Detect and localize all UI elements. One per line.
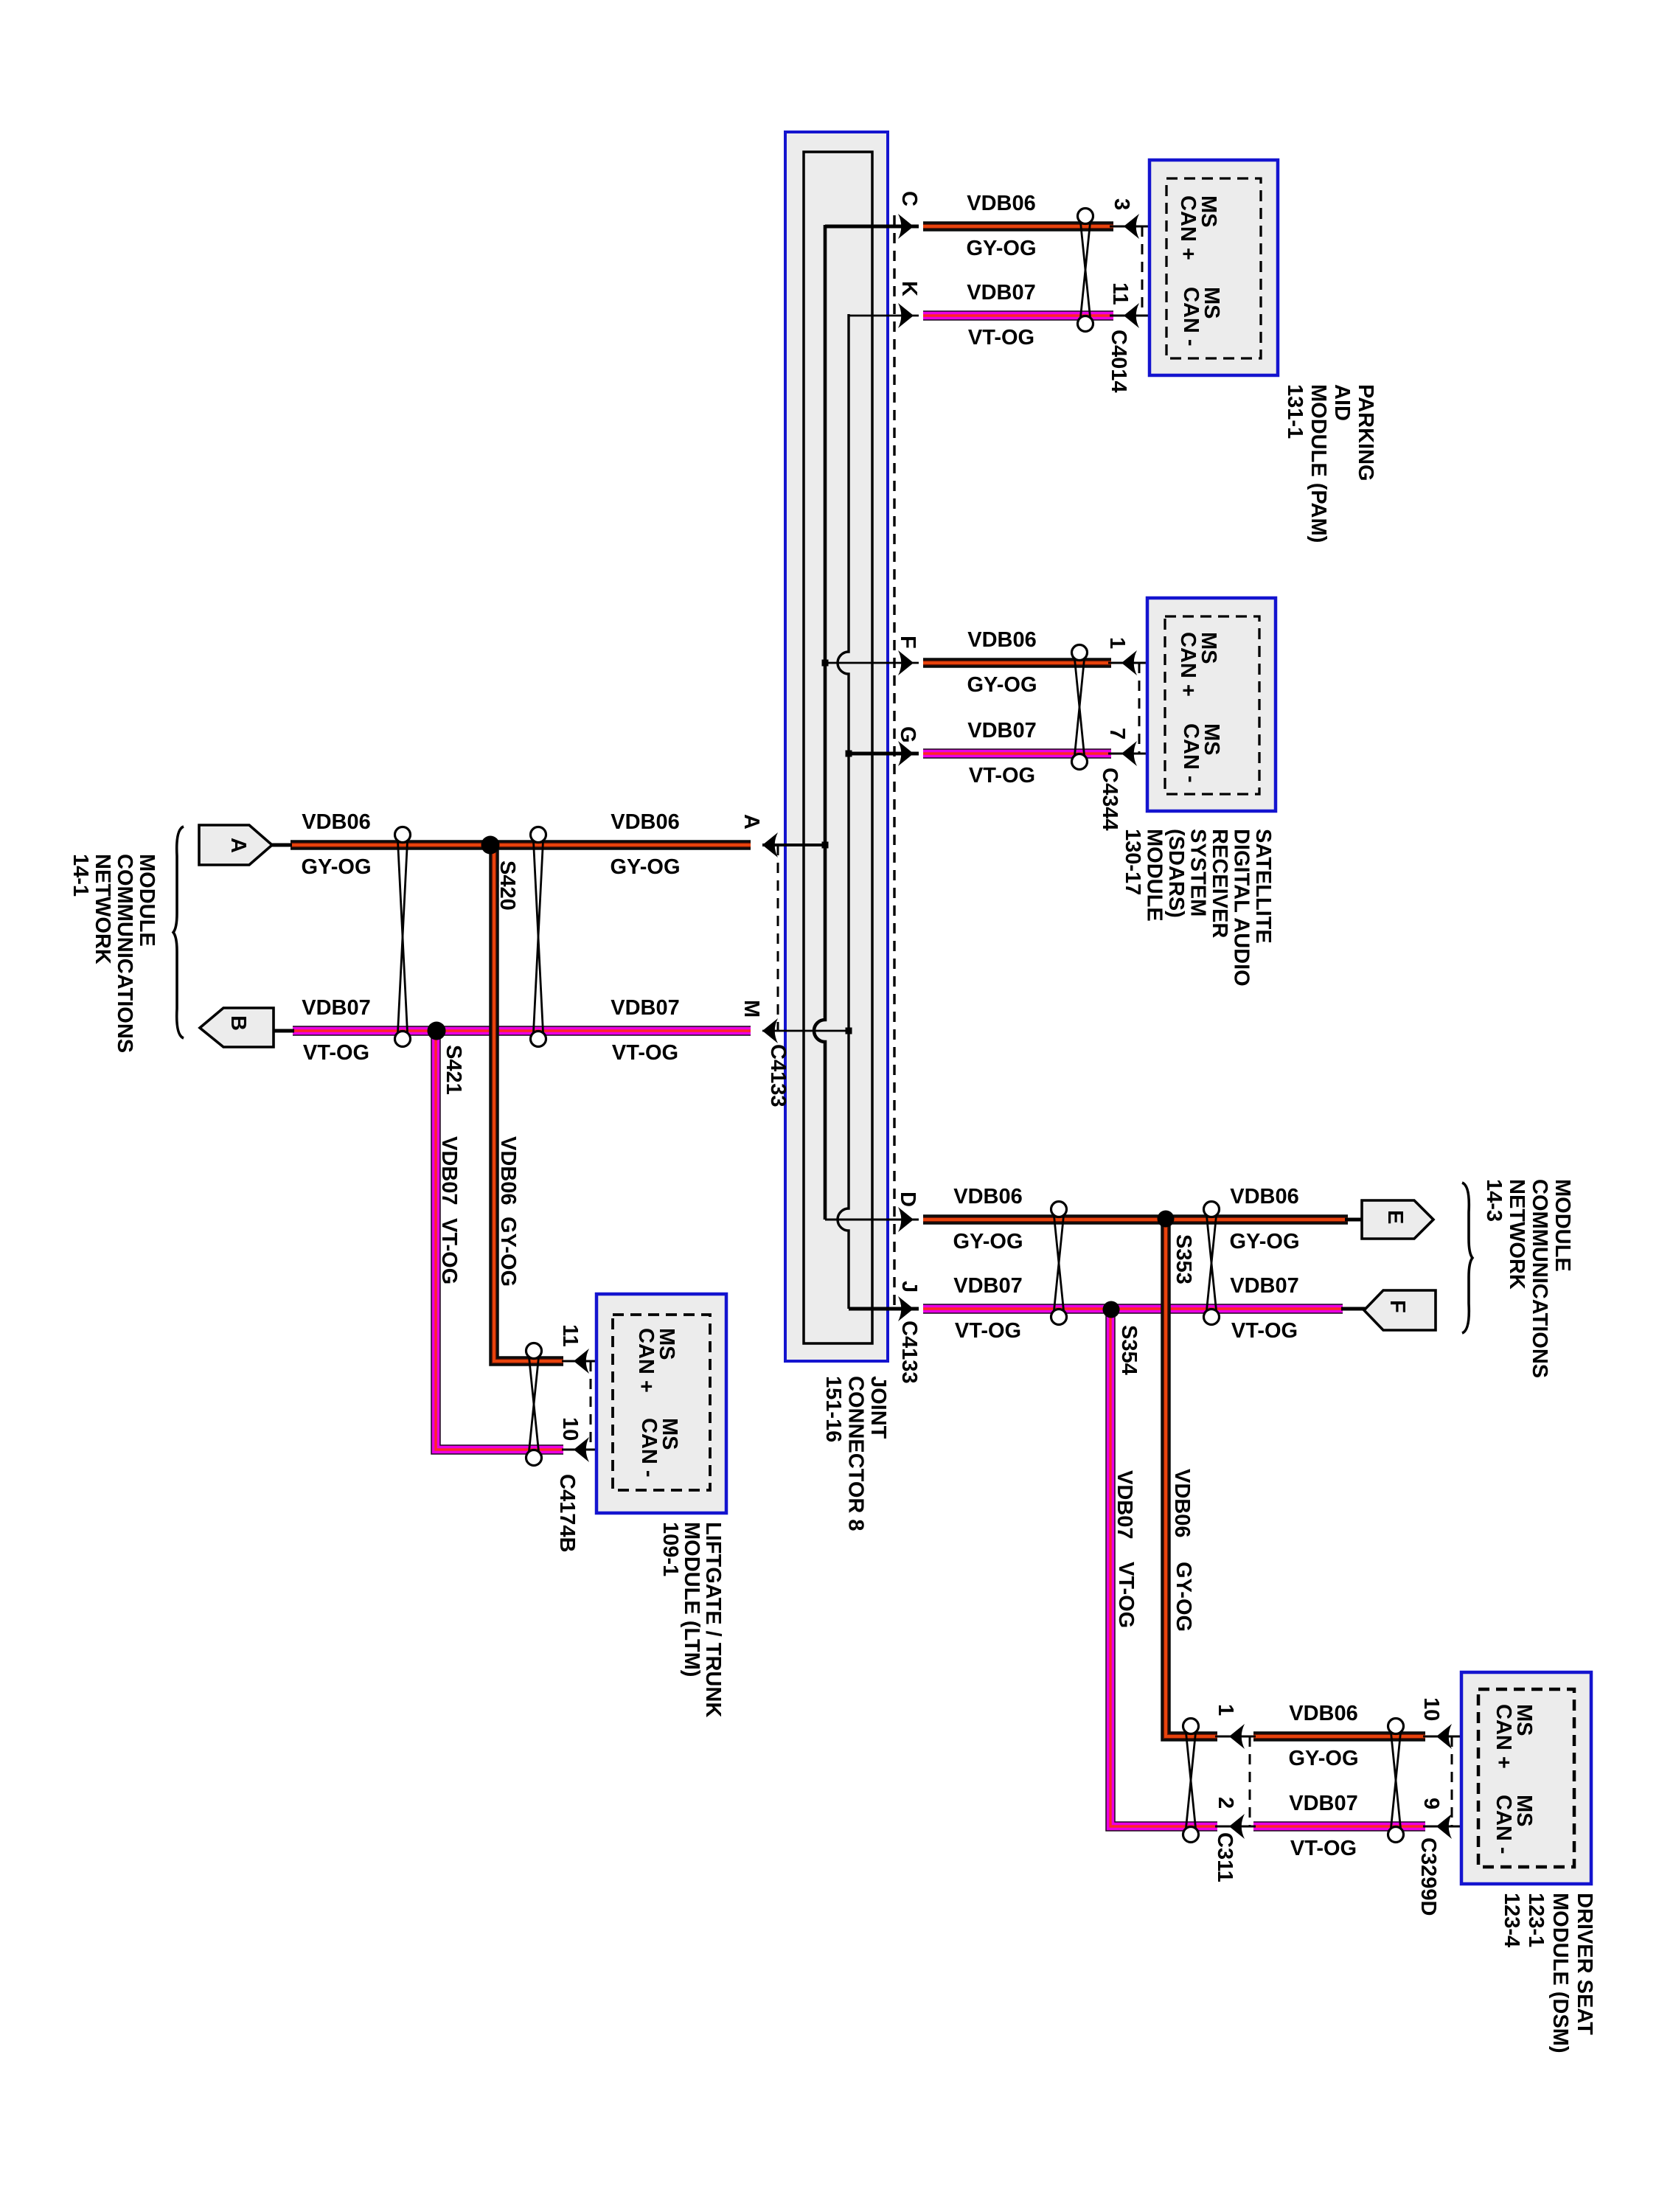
svg-text:GY-OG: GY-OG: [496, 1217, 520, 1287]
svg-text:VDB06: VDB06: [611, 810, 680, 834]
junction G on VDB07 trunk: [846, 751, 852, 757]
svg-text:F: F: [1385, 1300, 1409, 1313]
twisted pair symbol A/B left: [395, 827, 411, 1047]
SDARS pin 1 arrow: [1121, 650, 1137, 675]
svg-text:VDB07: VDB07: [967, 719, 1037, 742]
DSM MS CAN+ text: [1492, 1704, 1536, 1769]
network flag F: [1364, 1290, 1436, 1330]
wire VDB07 VT-OG joint connector K to PAM pin 11: [923, 310, 1113, 321]
SDARS MS CAN+ text: [1176, 632, 1220, 697]
svg-text:K: K: [897, 281, 921, 296]
wire VDB07 vertical from S354 to DSM via C311 pin 2: [1110, 1310, 1217, 1826]
svg-text:C4174B: C4174B: [555, 1474, 579, 1552]
connector C3299D dashed line: [1451, 1736, 1453, 1826]
wire labels VDB06 GY-OG (D row right): [1230, 1185, 1299, 1208]
splice label S354: [1117, 1325, 1141, 1375]
LTM MS CAN- text: [637, 1418, 681, 1478]
joint connector 8 box 151-16: [785, 132, 888, 1361]
wire labels VDB06 GY-OG (F row): [967, 628, 1037, 652]
PAM pin 11 arrow: [1124, 303, 1139, 328]
pin label M: [740, 1000, 763, 1018]
svg-text:C4344: C4344: [1098, 768, 1121, 830]
svg-text:VT-OG: VT-OG: [955, 1319, 1021, 1343]
C311 pin 1 arrow: [1229, 1724, 1245, 1749]
svg-text:GY-OG: GY-OG: [953, 1230, 1023, 1253]
svg-text:VT-OG: VT-OG: [968, 326, 1034, 349]
connector C4014 dashed line: [1141, 226, 1144, 316]
PAM MS CAN- text: [1179, 287, 1223, 347]
flag F lead: [1341, 1307, 1366, 1311]
wire labels VDB07 VT-OG (G row): [967, 719, 1037, 742]
svg-text:VDB07: VDB07: [967, 281, 1036, 305]
connector label C4174B: [555, 1474, 579, 1552]
LTM pin 11 arrow: [574, 1349, 589, 1374]
wire labels VDB06 GY-OG (A row left): [302, 810, 371, 834]
svg-text:GY-OG: GY-OG: [1288, 1747, 1358, 1770]
wire VDB06 GY-OG joint connector F to SDARS pin 1: [923, 658, 1111, 668]
wire labels VDB06 GY-OG (DSM row): [1289, 1702, 1358, 1725]
twisted pair symbol A/B right: [531, 827, 546, 1047]
connector label C311: [1213, 1832, 1237, 1882]
pin label J: [897, 1281, 921, 1293]
wire labels VDB07 VT-OG (J row right): [1230, 1274, 1299, 1298]
splice label S353: [1172, 1234, 1195, 1284]
junction A on VDB06 trunk: [822, 842, 829, 849]
network flag E: [1362, 1200, 1433, 1239]
pin label 11 (PAM): [1108, 282, 1132, 305]
PAM module label: [1283, 384, 1377, 543]
wire VDB07 VT-OG joint connector J to splice S354 to flag F: [923, 1304, 1343, 1314]
DSM MS CAN- text: [1492, 1795, 1536, 1854]
wire labels VDB07 VT-OG (DSM row): [1289, 1792, 1358, 1815]
satellite digital audio receiver (SDARS) module box: [1147, 598, 1276, 811]
pin label 1 (SDARS): [1105, 637, 1129, 649]
pin label A: [740, 814, 763, 829]
twisted pair symbol C311 leads: [1183, 1719, 1199, 1843]
wire VDB07 VT-OG C311 pin 2 to DSM pin 9: [1253, 1821, 1425, 1832]
svg-text:10: 10: [1419, 1697, 1443, 1721]
svg-text:M: M: [740, 1000, 763, 1018]
wire VDB06 vertical from S420 to LTM pin 11: [494, 845, 563, 1361]
twisted pair symbol F/G: [1072, 645, 1088, 770]
pin label 9 (DSM): [1419, 1798, 1443, 1809]
svg-text:VDB07: VDB07: [1230, 1274, 1299, 1298]
svg-text:VT-OG: VT-OG: [303, 1041, 369, 1065]
svg-text:S420: S420: [495, 860, 519, 911]
LTM pin 10 arrow: [574, 1437, 589, 1462]
brace module communications network 14-1: [173, 827, 184, 1038]
svg-text:VDB06: VDB06: [1289, 1702, 1358, 1725]
joint connector pin G arrow: [898, 741, 914, 766]
joint connector label: [821, 1376, 890, 1531]
DSM pin 10 lead: [1423, 1736, 1478, 1738]
vertical wire label VT-OG (S421 run): [437, 1218, 461, 1284]
svg-text:E: E: [1383, 1210, 1407, 1224]
wire labels VDB07 VT-OG (B row right): [611, 996, 680, 1020]
wire VDB06 vertical from S353 to DSM via C311 pin 1: [1166, 1220, 1217, 1736]
joint connector pin K arrow: [898, 303, 914, 328]
pin label K: [897, 281, 921, 296]
svg-text:VDB07: VDB07: [302, 996, 371, 1020]
vertical wire label VDB07 (S421 run): [437, 1136, 461, 1206]
network flag A: [199, 825, 272, 865]
svg-text:VDB06: VDB06: [1230, 1185, 1299, 1208]
LTM pin 11 lead: [562, 1360, 613, 1363]
DSM module label: [1500, 1893, 1596, 2053]
splice S354: [1103, 1301, 1120, 1318]
svg-text:11: 11: [558, 1324, 582, 1347]
twisted pair symbol D/J right: [1204, 1202, 1220, 1325]
svg-text:GY-OG: GY-OG: [610, 855, 680, 879]
pin label 10 (LTM): [558, 1417, 582, 1441]
svg-text:C: C: [897, 191, 921, 206]
svg-text:VT-OG: VT-OG: [969, 764, 1035, 787]
joint connector right-side connector dashed line: [893, 215, 895, 1309]
pin label F: [896, 636, 919, 649]
wire VDB07 VT-OG joint connector G to SDARS pin 7: [923, 748, 1111, 759]
svg-text:VT-OG: VT-OG: [1290, 1837, 1357, 1860]
twisted pair symbol DSM leads: [1388, 1719, 1404, 1843]
svg-text:VT-OG: VT-OG: [1114, 1562, 1138, 1628]
svg-text:10: 10: [558, 1417, 582, 1441]
svg-text:VDB06: VDB06: [953, 1185, 1023, 1208]
wire labels VDB07 VT-OG (J row left): [953, 1274, 1023, 1298]
svg-text:GY-OG: GY-OG: [967, 673, 1037, 697]
wire labels VDB06 GY-OG (A row right): [611, 810, 680, 834]
PAM pin 3 arrow: [1124, 214, 1139, 239]
junction M on VDB07 trunk: [846, 1028, 852, 1034]
vertical wire label GY-OG (S420 run): [496, 1217, 520, 1287]
pin label D: [896, 1192, 919, 1207]
label module communications network 14-3: [1482, 1179, 1574, 1378]
flag A lead: [270, 844, 292, 847]
vertical wire label VDB07 (S354 run): [1113, 1470, 1136, 1540]
svg-text:VDB07: VDB07: [1113, 1470, 1136, 1540]
DSM pin 9 arrow: [1436, 1814, 1452, 1839]
joint connector pin M internal line: [762, 1030, 849, 1032]
vertical wire label GY-OG (S353 run): [1172, 1562, 1195, 1632]
svg-text:VDB07: VDB07: [437, 1136, 461, 1206]
C311 pin 2 arrow: [1229, 1814, 1245, 1839]
PAM pin 3 lead: [1110, 226, 1167, 228]
vertical wire label VDB06 (S420 run): [496, 1136, 520, 1206]
svg-text:VT-OG: VT-OG: [612, 1041, 678, 1065]
svg-text:F: F: [896, 636, 919, 649]
joint connector pin A internal line: [762, 844, 825, 846]
joint connector pin F arrow: [898, 650, 914, 675]
network flag B: [200, 1008, 274, 1047]
SDARS MS CAN- text: [1179, 723, 1223, 783]
splice label S421: [442, 1045, 465, 1095]
joint connector pin C arrow: [898, 214, 914, 239]
svg-text:1: 1: [1214, 1704, 1237, 1716]
liftgate/trunk module (LTM) box: [597, 1294, 726, 1513]
svg-text:C311: C311: [1213, 1832, 1237, 1882]
joint connector internal bus VDB06: pin C trunk to pin D: [814, 225, 919, 1220]
LTM module label: [658, 1522, 725, 1717]
wire labels VDB06 GY-OG (D row left): [953, 1185, 1023, 1208]
svg-text:C4133: C4133: [766, 1044, 790, 1107]
svg-text:VDB07: VDB07: [611, 996, 680, 1020]
SDARS pin 1 lead: [1108, 662, 1166, 664]
svg-text:GY-OG: GY-OG: [1229, 1230, 1299, 1253]
pin label 2 (C311): [1214, 1797, 1237, 1809]
joint connector internal bus VDB07: pin K trunk to pin J: [838, 314, 919, 1309]
joint connector pin D arrow: [898, 1207, 914, 1232]
pin label 3: [1110, 198, 1133, 210]
pin label 7: [1105, 728, 1129, 740]
svg-text:VDB07: VDB07: [1289, 1792, 1358, 1815]
svg-text:VT-OG: VT-OG: [437, 1218, 461, 1284]
SDARS module label: [1121, 829, 1275, 987]
pin label 11 (LTM): [558, 1324, 582, 1347]
svg-text:VDB06: VDB06: [496, 1136, 520, 1206]
svg-text:S421: S421: [442, 1045, 465, 1095]
splice S420: [481, 836, 500, 855]
splice S353: [1158, 1211, 1175, 1228]
label module communications network 14-1: [69, 854, 159, 1053]
pin label G: [896, 726, 919, 743]
svg-text:S353: S353: [1172, 1234, 1195, 1284]
svg-text:VT-OG: VT-OG: [1231, 1319, 1298, 1343]
LTM MS CAN+ text: [634, 1328, 678, 1393]
C311 pin 2 gap lead: [1215, 1826, 1256, 1828]
twisted pair symbol LTM leads: [526, 1343, 542, 1466]
connector C4344 dashed line: [1138, 663, 1141, 754]
svg-text:VDB06: VDB06: [302, 810, 371, 834]
parking aid module (PAM) box: [1150, 160, 1278, 375]
twisted pair symbol D/J left: [1051, 1202, 1067, 1325]
flag B lead: [272, 1029, 294, 1033]
joint connector pin G internal line: [849, 752, 919, 756]
svg-text:A: A: [226, 838, 250, 853]
flag E lead: [1345, 1218, 1363, 1222]
svg-text:B: B: [226, 1015, 250, 1031]
svg-text:9: 9: [1419, 1798, 1443, 1809]
svg-text:11: 11: [1108, 282, 1132, 305]
svg-text:VDB07: VDB07: [953, 1274, 1023, 1298]
connector label C4133 (bottom): [897, 1321, 921, 1383]
pin label 1 (C311): [1214, 1704, 1237, 1716]
svg-text:VDB06: VDB06: [967, 192, 1036, 215]
wire labels VDB06 GY-OG (C row): [967, 192, 1036, 215]
joint connector pin M arrow: [762, 1018, 778, 1043]
wire VDB06 GY-OG joint connector C to PAM pin 3: [923, 221, 1113, 232]
brace module communications network 14-3: [1462, 1183, 1472, 1333]
connector label C4133 (left): [766, 1044, 790, 1107]
wire VDB06 GY-OG network A to joint connector pin A through splice S420: [291, 840, 751, 850]
C311 pin 1 gap lead: [1215, 1736, 1256, 1738]
joint connector pin J arrow: [898, 1296, 914, 1321]
wire labels VDB07 VT-OG (B row left): [302, 996, 371, 1020]
wire VDB06 GY-OG joint connector D to splice S353 to flag E: [923, 1214, 1348, 1225]
wire VDB07 vertical from S421 to LTM pin 10: [436, 1031, 563, 1450]
svg-text:VDB06: VDB06: [1170, 1469, 1194, 1538]
junction F on VDB06 trunk: [822, 660, 829, 667]
PAM pin 11 lead: [1110, 315, 1167, 317]
svg-text:VDB06: VDB06: [967, 628, 1037, 652]
svg-text:1: 1: [1105, 637, 1129, 649]
LTM connector dashed line: [590, 1361, 592, 1450]
svg-text:D: D: [896, 1192, 919, 1207]
svg-text:GY-OG: GY-OG: [966, 237, 1036, 260]
svg-text:C4014: C4014: [1107, 330, 1130, 392]
svg-text:C3299D: C3299D: [1416, 1837, 1440, 1916]
splice label S420: [495, 860, 519, 911]
connector C311 dashed line: [1249, 1736, 1251, 1826]
svg-text:GY-OG: GY-OG: [1172, 1562, 1195, 1632]
driver seat module (DSM) box: [1461, 1672, 1591, 1884]
svg-text:C4133: C4133: [897, 1321, 921, 1383]
connector C4133 left dashed line: [777, 845, 779, 1031]
pin label 10 (DSM): [1419, 1697, 1443, 1721]
connector label C4344: [1098, 768, 1121, 830]
wire VDB06 GY-OG C311 pin 1 to DSM pin 10: [1253, 1731, 1425, 1742]
connector label C4014: [1107, 330, 1130, 392]
SDARS pin 7 arrow: [1121, 741, 1137, 766]
wire labels VDB07 VT-OG (K row): [967, 281, 1036, 305]
svg-text:A: A: [740, 814, 763, 829]
vertical wire label VT-OG (S354 run): [1114, 1562, 1138, 1628]
SDARS pin 7 lead: [1108, 753, 1166, 755]
svg-text:7: 7: [1105, 728, 1129, 740]
connector label C3299D: [1416, 1837, 1440, 1916]
DSM pin 9 lead: [1423, 1826, 1478, 1828]
wire VDB07 VT-OG network B to joint connector pin M through splice S421: [293, 1026, 751, 1036]
splice S421: [428, 1022, 446, 1040]
svg-text:2: 2: [1214, 1797, 1237, 1809]
svg-text:GY-OG: GY-OG: [301, 855, 371, 879]
pin label C: [897, 191, 921, 206]
svg-text:3: 3: [1110, 198, 1133, 210]
svg-text:J: J: [897, 1281, 921, 1293]
LTM pin 10 lead: [562, 1449, 613, 1451]
svg-text:G: G: [896, 726, 919, 743]
joint connector pin A arrow: [762, 832, 778, 858]
PAM MS CAN+ text: [1176, 195, 1220, 260]
twisted pair symbol C/K: [1078, 209, 1093, 332]
joint connector pin F internal line: [825, 662, 919, 664]
DSM pin 10 arrow: [1436, 1724, 1452, 1749]
vertical wire label VDB06 (S353 run): [1170, 1469, 1194, 1538]
svg-text:S354: S354: [1117, 1325, 1141, 1375]
